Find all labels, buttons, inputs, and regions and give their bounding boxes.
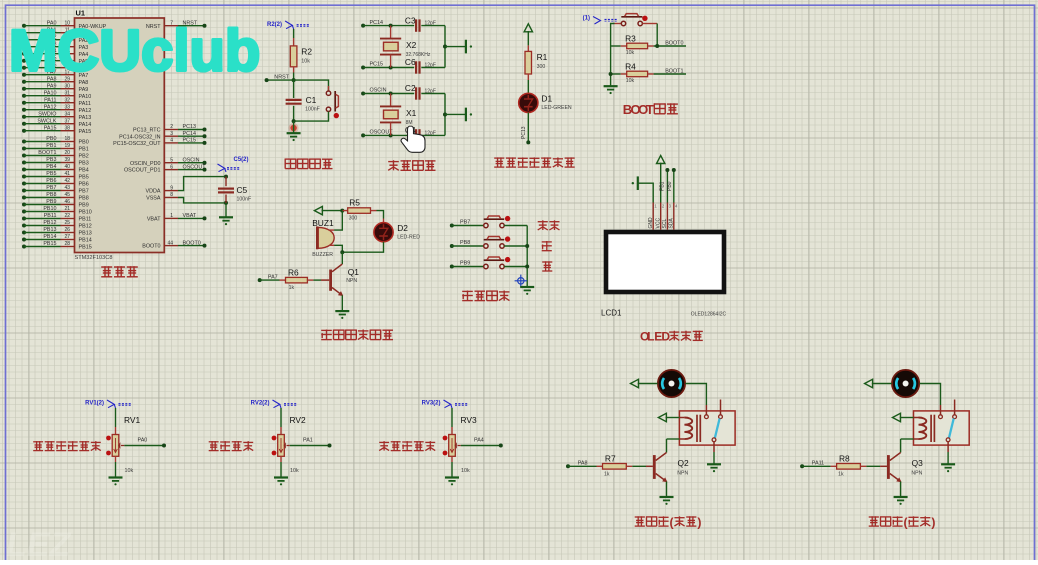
svg-text:R4: R4 — [625, 61, 636, 71]
wire buzzer top to R5 node — [334, 211, 342, 231]
svg-text:10k: 10k — [461, 468, 470, 474]
node PC14 — [361, 24, 365, 28]
capacitor C4 — [415, 129, 417, 141]
svg-text:RV2: RV2 — [290, 415, 306, 425]
wire PB9 to key — [452, 266, 484, 268]
pin BOOT0 (44) right side — [164, 245, 178, 247]
node R5 left junction — [340, 209, 344, 213]
wire R3 to BOOT0 — [654, 45, 686, 47]
svg-text:32.768KHz: 32.768KHz — [406, 52, 431, 58]
wire RV2 to ground — [280, 456, 282, 462]
svg-text:PB4: PB4 — [79, 168, 89, 174]
crystal X1 — [390, 94, 392, 107]
pin PB3 (39) with net PB3 wire and node — [22, 161, 26, 165]
ground BOOT — [604, 85, 618, 87]
svg-text:PC14-OSC32_IN: PC14-OSC32_IN — [119, 134, 160, 140]
relay switch common pin — [940, 405, 942, 415]
svg-text:PB1: PB1 — [79, 147, 89, 153]
OLED pin SCL (3) — [666, 203, 668, 230]
pin PB9 (46) with net PB9 wire and node — [22, 203, 26, 207]
svg-text:34: 34 — [64, 111, 70, 117]
wire motor to relay common — [919, 384, 940, 406]
svg-text:OSCOUT_PD1: OSCOUT_PD1 — [124, 168, 161, 174]
wire key PB7 to rail — [504, 225, 527, 227]
svg-text:PC14: PC14 — [183, 131, 197, 137]
svg-text:RV3: RV3 — [461, 415, 477, 425]
wire coil bottom lead — [679, 438, 684, 440]
svg-text:BOOT0: BOOT0 — [665, 40, 683, 46]
resistor R7 — [568, 465, 597, 467]
OLED pin GND (1) — [652, 203, 654, 230]
svg-text:OLED12864I2C: OLED12864I2C — [691, 312, 727, 318]
node crystal bottom junction — [389, 66, 393, 70]
wire to side ground — [445, 46, 466, 48]
svg-text:PA14: PA14 — [79, 122, 92, 128]
ground relay — [707, 463, 721, 465]
node BOOT0 junction — [655, 44, 659, 48]
label plus — [542, 241, 552, 243]
LED D2 — [383, 219, 385, 224]
svg-text:41: 41 — [64, 171, 70, 177]
node rail PB8 junction — [525, 244, 529, 248]
pin PA7 (17) with net PA7 wire and node — [22, 73, 26, 77]
svg-text:12pF: 12pF — [425, 131, 436, 137]
svg-text:6: 6 — [170, 164, 173, 170]
pin PC13_RTC (2) right side — [164, 129, 178, 131]
power symbol left motor — [865, 379, 873, 387]
title reset circuit — [284, 159, 286, 169]
svg-text:RV2(2): RV2(2) — [251, 401, 270, 407]
pin PB8 (45) with net PB8 wire and node — [22, 196, 26, 200]
svg-text:PC15-OSC32_OUT: PC15-OSC32_OUT — [113, 141, 161, 147]
pin PB11 (22) with net PB11 wire and node — [22, 217, 26, 221]
resistor R3 — [611, 45, 621, 47]
transistor Q3 — [890, 453, 901, 461]
node PC13 — [526, 140, 530, 144]
svg-text:19: 19 — [64, 143, 70, 149]
svg-text:22: 22 — [64, 213, 70, 219]
terminal marker RV2(2) — [273, 400, 280, 408]
svg-text:X1: X1 — [406, 108, 417, 118]
svg-text:PB10: PB10 — [43, 206, 56, 212]
wire net PC15 — [178, 142, 205, 144]
wire RV3 to ground — [451, 456, 453, 462]
svg-text:PB15: PB15 — [43, 241, 56, 247]
wire BOOT button left rail — [611, 24, 615, 87]
node reset ground junction — [292, 119, 296, 123]
svg-text:C1: C1 — [306, 95, 317, 105]
wire terminal to R2 — [293, 29, 295, 38]
pin PA8 (29) with net PA8 wire and node — [22, 80, 26, 84]
svg-text:GND: GND — [648, 217, 654, 229]
push button BOOT — [615, 23, 622, 25]
svg-text:BOOT1: BOOT1 — [665, 68, 683, 74]
pin VDDA (9) right side — [164, 190, 178, 192]
ground keys — [520, 286, 534, 288]
svg-text:C2: C2 — [405, 83, 416, 93]
svg-text:PA9: PA9 — [47, 83, 57, 89]
potentiometer RV1 wiper — [121, 445, 124, 447]
wire net VBAT — [178, 217, 205, 219]
resistor R5 — [342, 210, 347, 212]
svg-text:PB3: PB3 — [79, 161, 89, 167]
svg-text:10k: 10k — [626, 50, 635, 56]
svg-text:43: 43 — [64, 185, 70, 191]
svg-text:PB5: PB5 — [46, 171, 56, 177]
svg-text:BUZ1: BUZ1 — [312, 218, 334, 228]
ground Q3 — [894, 496, 908, 498]
svg-text:38: 38 — [64, 125, 70, 131]
terminal marker RV1(2) — [107, 400, 114, 408]
svg-text:Q1: Q1 — [348, 267, 360, 277]
pin PA6 (16) with net PA6 wire and node — [22, 66, 26, 70]
push button reset actuator dot — [334, 113, 339, 118]
pin PB6 (42) with net PB6 wire and node — [22, 182, 26, 186]
wire net OSCOUT — [178, 169, 205, 171]
svg-text:D1: D1 — [541, 94, 552, 104]
svg-text:PB8: PB8 — [46, 192, 56, 198]
svg-text:PB10: PB10 — [79, 210, 92, 216]
relay box Q2 — [679, 411, 735, 445]
svg-text:R6: R6 — [288, 267, 299, 277]
svg-text:NPN: NPN — [911, 471, 922, 477]
power symbol left — [314, 206, 322, 214]
svg-text:PB11: PB11 — [44, 213, 57, 219]
ground RV2 — [274, 476, 288, 478]
svg-text:NPN: NPN — [677, 471, 688, 477]
wire RV1 to ground — [115, 456, 117, 462]
relay switch pole — [946, 438, 950, 442]
svg-text:PC15: PC15 — [183, 138, 197, 144]
push button reset — [328, 86, 330, 93]
svg-text:10k: 10k — [626, 78, 635, 84]
pin VBAT (1) right side — [164, 217, 178, 219]
wire R7 to base — [632, 465, 646, 467]
potentiometer RV3 adjust dots — [443, 436, 448, 441]
svg-text:R8: R8 — [839, 453, 850, 463]
capacitor C3 — [415, 19, 417, 31]
node collector junction — [340, 250, 344, 254]
svg-text:PC13: PC13 — [521, 126, 527, 139]
title 苯值调节 — [209, 441, 219, 443]
svg-text:OSCIN: OSCIN — [370, 88, 387, 94]
svg-text:5: 5 — [170, 157, 173, 163]
svg-text:PA15: PA15 — [44, 125, 57, 131]
wire button right to BOOT0 row — [656, 24, 658, 47]
svg-text:12pF: 12pF — [425, 63, 436, 69]
wire R1 to D1 — [527, 80, 529, 93]
push button key PB7 — [484, 218, 505, 220]
pin PA9 (30) with net PA9 wire and node — [22, 87, 26, 91]
LED D1 — [519, 93, 538, 112]
svg-text:10k: 10k — [125, 468, 134, 474]
OLED display LCD1 screen — [606, 232, 724, 292]
wire to side ground — [445, 113, 466, 115]
node PB9 — [450, 265, 454, 269]
pin PA13 (34) with net SWDIO wire and node — [22, 115, 26, 119]
svg-text:C5(2): C5(2) — [234, 157, 249, 163]
wire C1 top — [293, 80, 295, 98]
wire key PB8 to rail — [504, 245, 527, 247]
node rail PB9 junction — [525, 265, 529, 269]
svg-text:R3: R3 — [625, 33, 636, 43]
capacitor C2 — [415, 87, 417, 99]
pin PB5 (41) with net PB5 wire and node — [22, 175, 26, 179]
key PB8 actuator dot — [505, 236, 510, 241]
node OSCOUT — [361, 133, 365, 137]
wire net NRST — [178, 25, 205, 27]
wire GND pin to side ground — [643, 183, 653, 202]
svg-text:PB7: PB7 — [46, 185, 56, 191]
power symbol up OLED — [657, 156, 665, 164]
relay box Q3 — [914, 411, 970, 445]
svg-text:BOOT0: BOOT0 — [183, 240, 201, 246]
wire SCL up — [666, 170, 668, 203]
title 继电器(净化) — [869, 516, 879, 518]
wire coil top lead — [914, 417, 919, 419]
wire buzzer bottom to collector row — [334, 245, 342, 252]
node PC15 — [361, 66, 365, 70]
title 继电器(风扇) — [635, 516, 645, 518]
svg-text:RV1(2): RV1(2) — [85, 401, 104, 407]
power symbol up — [524, 24, 532, 32]
node crystal bottom junction — [389, 133, 393, 137]
svg-text:OSCIN: OSCIN — [183, 157, 200, 163]
svg-text:25: 25 — [64, 220, 70, 226]
svg-text:PB4: PB4 — [46, 164, 56, 170]
wire power to motor — [638, 383, 658, 385]
wire D2 to collector row — [342, 242, 383, 252]
svg-text:100nF: 100nF — [237, 197, 252, 203]
pin OSCIN_PD0 (5) right side — [164, 162, 178, 164]
svg-text:PA8: PA8 — [578, 460, 588, 466]
push button key PB8 — [484, 239, 505, 241]
power symbol left coil — [893, 413, 901, 421]
capacitor C6 — [415, 61, 417, 73]
OLED pin VCC (2) — [660, 203, 662, 230]
pin PA5 (15) with net PA5 wire and node — [22, 59, 26, 63]
svg-text:R2: R2 — [301, 47, 312, 57]
svg-text:PB1: PB1 — [659, 181, 665, 191]
svg-text:PC15: PC15 — [370, 62, 384, 68]
svg-text:PB12: PB12 — [79, 224, 92, 230]
svg-text:VBAT: VBAT — [183, 213, 197, 219]
svg-text:PB13: PB13 — [79, 231, 92, 237]
capacitor C1 — [286, 99, 302, 101]
wire SDA up — [673, 170, 675, 203]
svg-text:): ) — [931, 515, 935, 529]
svg-text:27: 27 — [64, 234, 70, 240]
node ground junction — [443, 45, 447, 49]
svg-text:PA1: PA1 — [303, 438, 313, 444]
wire terminal to RV3 — [451, 408, 453, 427]
node PA8 — [566, 464, 570, 468]
OLED pin SDA (4) — [673, 203, 675, 230]
wire PC14 row — [363, 25, 414, 27]
wire emitter to ground — [341, 295, 343, 311]
svg-text:1k: 1k — [604, 471, 610, 477]
potentiometer RV2 wiper — [287, 445, 290, 447]
wire NRST stub left — [267, 79, 294, 81]
svg-text:C6: C6 — [405, 57, 416, 67]
svg-text:Q2: Q2 — [678, 458, 690, 468]
svg-text:20: 20 — [64, 150, 70, 156]
svg-text:PB9: PB9 — [79, 203, 89, 209]
pin PC15-OSC32_OUT (4) right side — [164, 142, 178, 144]
pin PA11 (32) with net PA11 wire and node — [22, 101, 26, 105]
svg-text:10k: 10k — [301, 59, 310, 65]
svg-text:30: 30 — [64, 83, 70, 89]
ground RV3 — [445, 476, 459, 478]
potentiometer RV1 — [112, 435, 119, 457]
svg-text:PA0: PA0 — [138, 438, 148, 444]
wire junction to ground — [293, 121, 295, 133]
pin PA14 (37) with net SWCLK wire and node — [22, 122, 26, 126]
transistor Q1 — [332, 264, 342, 272]
svg-text:R7: R7 — [605, 453, 616, 463]
wire key PB9 to rail — [504, 266, 527, 268]
ground RV1 — [109, 476, 123, 478]
svg-text:OSCIN_PD0: OSCIN_PD0 — [130, 161, 161, 167]
svg-text:T: T — [646, 102, 654, 117]
svg-text:21: 21 — [64, 206, 70, 212]
pin PB1 (19) with net PB1 wire and node — [22, 147, 26, 151]
pin PA4 (14) with net PA4 wire and node — [22, 52, 26, 56]
svg-text:SCL: SCL — [662, 219, 668, 229]
svg-text:31: 31 — [64, 90, 70, 96]
svg-text:U1: U1 — [76, 9, 85, 18]
wire PC15 row — [363, 67, 414, 69]
crystal X2 — [390, 26, 392, 39]
potentiometer RV3 — [449, 435, 456, 457]
svg-text:RV1: RV1 — [124, 415, 140, 425]
node SDA — [672, 168, 676, 172]
wire R2 to NRST node — [293, 73, 295, 81]
buzzer BUZ1 — [318, 227, 334, 248]
node R4 rail junction — [609, 72, 613, 76]
title independent keys — [462, 290, 473, 292]
svg-text:PA10: PA10 — [79, 94, 92, 100]
relay switch common pin — [705, 405, 707, 415]
ground side — [465, 108, 467, 122]
svg-text:PB0: PB0 — [46, 136, 56, 142]
node PA0 — [162, 444, 166, 448]
relay switch blade — [949, 419, 954, 438]
svg-text:PA11: PA11 — [79, 101, 91, 107]
wire C5 to ground — [225, 203, 227, 217]
wire C1 bottom — [293, 106, 295, 121]
svg-text:(1): (1) — [583, 16, 590, 22]
wire wiper to PA4 — [461, 445, 501, 447]
pin PB12 (25) with net PB12 wire and node — [22, 224, 26, 228]
svg-text:12pF: 12pF — [425, 89, 436, 95]
motor fan Q2 load — [658, 370, 685, 397]
title 可燃气值调节 — [33, 441, 43, 443]
wire collector down — [341, 252, 343, 264]
svg-text:VSSA: VSSA — [146, 196, 161, 202]
resistor R4 — [611, 73, 621, 75]
svg-text:2: 2 — [170, 124, 173, 130]
svg-text:X2: X2 — [406, 40, 417, 50]
capacitor C5 — [225, 177, 227, 187]
svg-text:46: 46 — [64, 199, 70, 205]
potentiometer RV1 adjust dots — [106, 436, 111, 441]
svg-text:28: 28 — [64, 241, 70, 247]
wire power to R5 node — [322, 210, 343, 212]
wire motor to relay common — [685, 384, 706, 406]
svg-text:9: 9 — [170, 185, 173, 191]
wire R8 to base — [866, 465, 880, 467]
node PA1 — [328, 444, 332, 448]
svg-text:PA12: PA12 — [44, 104, 57, 110]
label set — [538, 221, 548, 223]
wire button to ground rail — [294, 112, 329, 122]
key PB7 actuator dot — [505, 216, 510, 221]
node VDDA-C5 junction — [224, 175, 228, 179]
svg-text:300: 300 — [349, 215, 358, 221]
power symbol left coil — [658, 413, 666, 421]
relay switch pole — [712, 438, 716, 442]
svg-text:45: 45 — [64, 192, 70, 198]
svg-text:PA11: PA11 — [44, 97, 56, 103]
title alarm circuit — [321, 329, 332, 331]
wire wiper to PA0 — [124, 445, 164, 447]
node PA11 — [800, 464, 804, 468]
svg-text:PB13: PB13 — [43, 227, 56, 233]
svg-text:3: 3 — [170, 131, 173, 137]
svg-text:1k: 1k — [838, 471, 844, 477]
svg-text:LED-RED: LED-RED — [397, 234, 420, 240]
svg-text:PB8: PB8 — [79, 196, 89, 202]
ground relay — [941, 463, 955, 465]
wire VCC pin to power — [660, 163, 662, 203]
svg-text:R5: R5 — [349, 198, 360, 208]
transistor Q2 — [656, 453, 667, 461]
svg-text:BOOT0: BOOT0 — [142, 244, 160, 250]
relay coil — [919, 418, 927, 440]
svg-text:4: 4 — [170, 138, 173, 144]
label minus — [542, 261, 552, 263]
svg-text:1k: 1k — [289, 285, 295, 291]
svg-text:RV3(2): RV3(2) — [422, 401, 441, 407]
terminal marker RV3(2) — [444, 400, 451, 408]
wire keys rail — [526, 226, 528, 288]
svg-text:PB6: PB6 — [79, 182, 89, 188]
pin PA1 (11) with net PA1 wire and node — [22, 31, 26, 35]
wire power to motor — [872, 383, 892, 385]
svg-text:D: D — [661, 330, 670, 344]
svg-text:42: 42 — [64, 178, 70, 184]
resistor R1 — [527, 45, 529, 51]
node PA4 — [499, 444, 503, 448]
relay switch NC pin — [954, 400, 956, 415]
svg-text:PA4: PA4 — [474, 438, 484, 444]
potentiometer RV2 adjust dots — [272, 436, 277, 441]
pin NRST (7) right side — [164, 25, 178, 27]
motor fan Q3 load — [892, 370, 919, 397]
svg-text:C3: C3 — [405, 15, 416, 25]
svg-text:33: 33 — [64, 104, 70, 110]
wire PB7 to key — [452, 225, 484, 227]
node PA7 — [258, 278, 262, 282]
wire NRST to button — [294, 80, 329, 91]
wire emitter to ground — [666, 482, 668, 498]
svg-text:LEZ: LEZ — [6, 526, 71, 560]
relay switch NC pin — [720, 400, 722, 415]
wire coil bottom lead — [914, 438, 919, 440]
node PB8 — [450, 244, 454, 248]
svg-text:R1: R1 — [537, 52, 548, 62]
